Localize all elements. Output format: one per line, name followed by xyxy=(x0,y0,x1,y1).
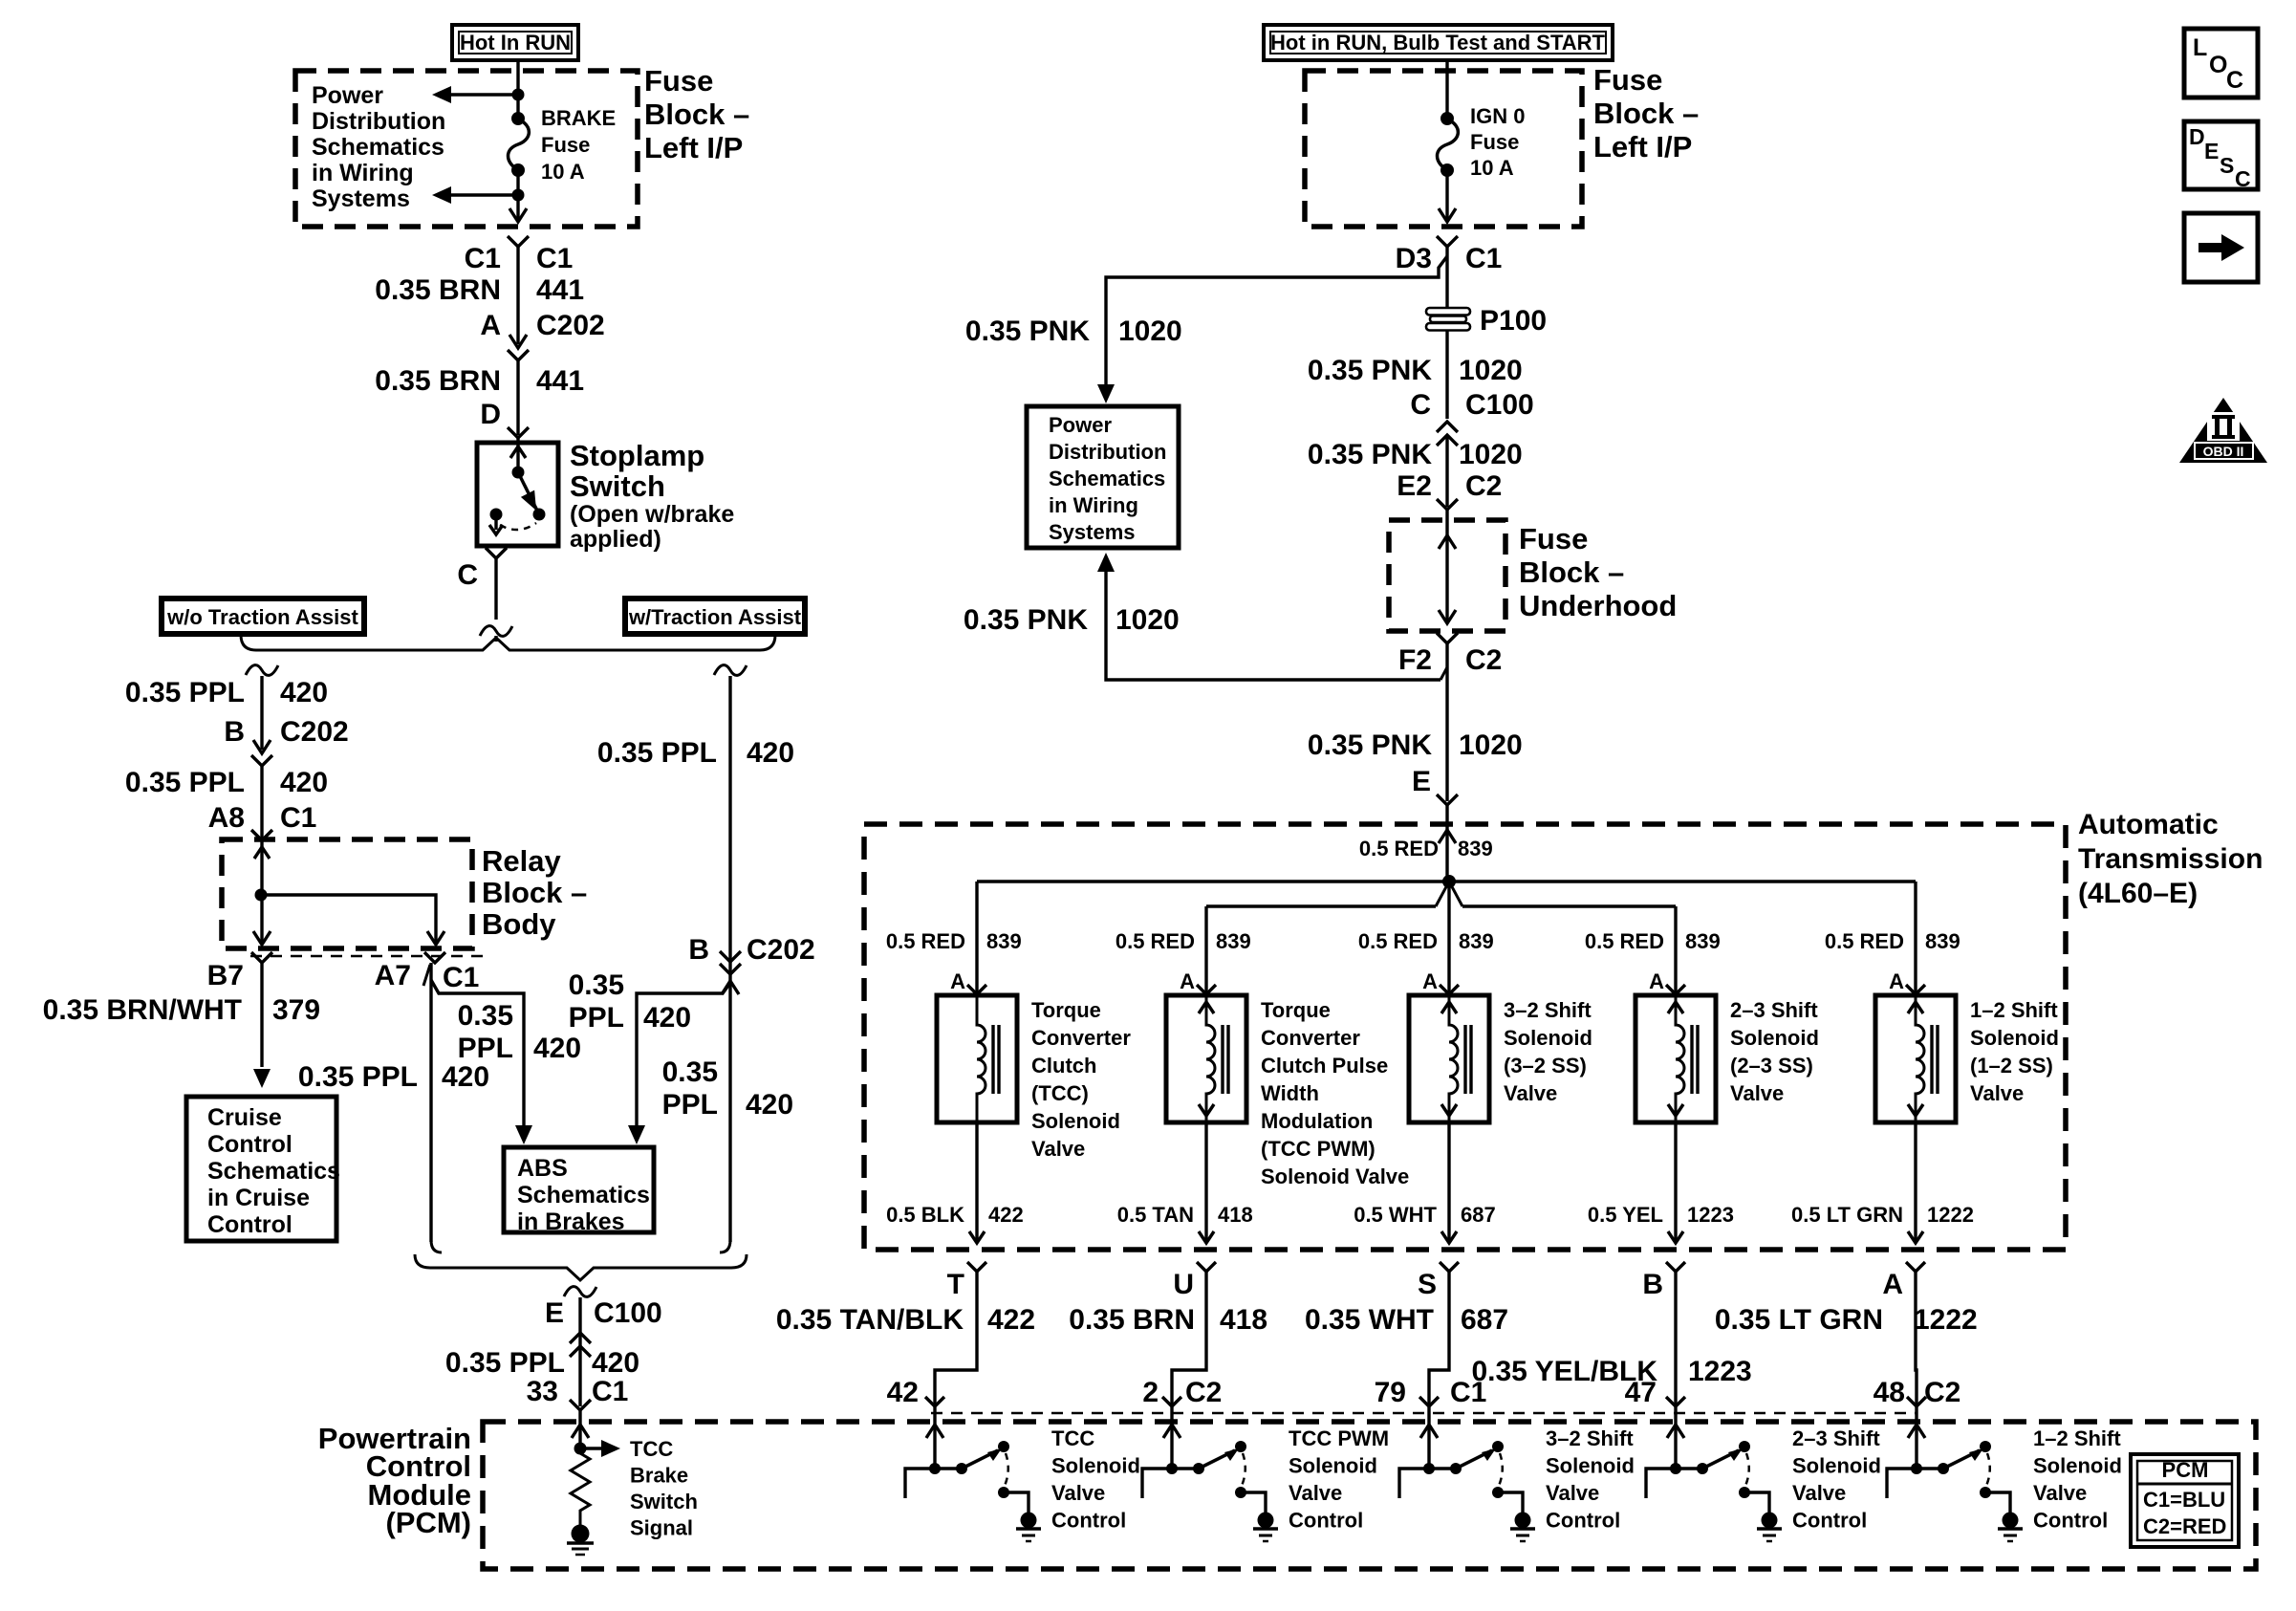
svg-text:Switch: Switch xyxy=(630,1490,698,1513)
svg-text:C1: C1 xyxy=(280,802,316,834)
svg-text:(1–2 SS): (1–2 SS) xyxy=(1970,1054,2053,1078)
svg-text:839: 839 xyxy=(986,929,1022,953)
svg-text:C2: C2 xyxy=(1465,470,1502,502)
svg-text:ABS: ABS xyxy=(517,1155,568,1182)
svg-text:Switch: Switch xyxy=(570,469,665,503)
svg-text:Solenoid: Solenoid xyxy=(1792,1454,1881,1478)
svg-text:420: 420 xyxy=(442,1061,489,1093)
svg-text:OBD II: OBD II xyxy=(2203,444,2244,459)
svg-text:0.35 PNK: 0.35 PNK xyxy=(1308,729,1432,761)
svg-text:0.35 PPL: 0.35 PPL xyxy=(445,1347,565,1379)
svg-text:Hot in RUN, Bulb Test and STAR: Hot in RUN, Bulb Test and START xyxy=(1270,31,1605,54)
svg-text:Valve: Valve xyxy=(1730,1081,1784,1105)
svg-text:U: U xyxy=(1173,1269,1194,1300)
svg-text:A: A xyxy=(950,969,965,993)
svg-text:Solenoid: Solenoid xyxy=(1289,1454,1377,1478)
svg-text:Signal: Signal xyxy=(630,1516,693,1540)
svg-text:Solenoid Valve: Solenoid Valve xyxy=(1261,1165,1409,1188)
svg-text:Control: Control xyxy=(2033,1509,2108,1533)
svg-text:2–3 Shift: 2–3 Shift xyxy=(1792,1426,1880,1450)
svg-text:Solenoid: Solenoid xyxy=(1546,1454,1635,1478)
svg-text:in Wiring: in Wiring xyxy=(1049,493,1138,517)
svg-text:Valve: Valve xyxy=(2033,1481,2087,1505)
svg-text:0.5 WHT: 0.5 WHT xyxy=(1354,1203,1437,1227)
svg-text:Solenoid: Solenoid xyxy=(1031,1109,1120,1133)
svg-text:C202: C202 xyxy=(747,934,815,966)
svg-text:C1: C1 xyxy=(1465,243,1502,274)
svg-text:Width: Width xyxy=(1261,1081,1319,1105)
svg-text:379: 379 xyxy=(272,994,320,1026)
svg-text:Schematics: Schematics xyxy=(207,1158,340,1185)
svg-text:0.5 YEL: 0.5 YEL xyxy=(1588,1203,1663,1227)
svg-text:Hot In RUN: Hot In RUN xyxy=(460,31,571,54)
svg-text:420: 420 xyxy=(533,1033,581,1064)
svg-text:0.5 RED: 0.5 RED xyxy=(886,929,965,953)
svg-text:PCM: PCM xyxy=(2162,1458,2209,1482)
svg-text:Body: Body xyxy=(482,907,556,941)
svg-text:33: 33 xyxy=(527,1376,558,1407)
svg-text:420: 420 xyxy=(643,1002,691,1034)
svg-text:0.35 PNK: 0.35 PNK xyxy=(1308,439,1432,470)
svg-text:10 A: 10 A xyxy=(1470,156,1514,180)
svg-text:42: 42 xyxy=(887,1377,919,1408)
svg-text:Underhood: Underhood xyxy=(1519,589,1677,622)
svg-text:C1: C1 xyxy=(592,1376,628,1407)
svg-text:Automatic: Automatic xyxy=(2078,809,2219,840)
svg-text:0.35: 0.35 xyxy=(662,1056,718,1088)
svg-text:2: 2 xyxy=(1142,1377,1159,1408)
svg-text:Control: Control xyxy=(207,1211,292,1238)
svg-text:Solenoid: Solenoid xyxy=(2033,1454,2122,1478)
svg-text:S: S xyxy=(1418,1269,1437,1300)
svg-text:1–2 Shift: 1–2 Shift xyxy=(2033,1426,2121,1450)
svg-text:O: O xyxy=(2209,52,2227,78)
svg-text:0.35 PNK: 0.35 PNK xyxy=(1308,355,1432,386)
svg-text:Solenoid: Solenoid xyxy=(1970,1026,2059,1050)
svg-text:Fuse: Fuse xyxy=(541,133,590,157)
svg-text:Control: Control xyxy=(1546,1509,1620,1533)
svg-text:(TCC): (TCC) xyxy=(1031,1081,1089,1105)
svg-text:420: 420 xyxy=(280,677,328,708)
svg-text:in Brakes: in Brakes xyxy=(517,1208,625,1235)
svg-text:0.35 PPL: 0.35 PPL xyxy=(298,1061,418,1093)
svg-text:C1: C1 xyxy=(465,243,501,274)
svg-text:10 A: 10 A xyxy=(541,160,585,184)
svg-text:0.5 LT GRN: 0.5 LT GRN xyxy=(1791,1203,1903,1227)
svg-text:0.35 PPL: 0.35 PPL xyxy=(125,677,245,708)
svg-text:C: C xyxy=(2235,166,2251,191)
svg-text:1020: 1020 xyxy=(1116,604,1180,636)
svg-text:Valve: Valve xyxy=(1546,1481,1599,1505)
svg-text:applied): applied) xyxy=(570,526,661,553)
svg-text:E: E xyxy=(1412,766,1431,797)
svg-text:(4L60–E): (4L60–E) xyxy=(2078,878,2198,909)
svg-text:0.5 RED: 0.5 RED xyxy=(1359,837,1439,860)
svg-text:C1: C1 xyxy=(443,962,479,993)
svg-text:TCC: TCC xyxy=(630,1437,673,1461)
svg-text:A: A xyxy=(1422,969,1438,993)
svg-text:0.35 BRN: 0.35 BRN xyxy=(375,274,501,306)
svg-text:A7: A7 xyxy=(375,960,411,991)
svg-text:A: A xyxy=(480,310,501,341)
svg-text:0.5 RED: 0.5 RED xyxy=(1116,929,1195,953)
svg-text:422: 422 xyxy=(987,1304,1035,1336)
svg-text:Power: Power xyxy=(312,82,383,109)
svg-text:B7: B7 xyxy=(207,960,244,991)
svg-text:Left I/P: Left I/P xyxy=(644,131,743,164)
svg-text:BRAKE: BRAKE xyxy=(541,106,616,130)
svg-text:Valve: Valve xyxy=(1792,1481,1846,1505)
svg-text:2–3 Shift: 2–3 Shift xyxy=(1730,998,1818,1022)
svg-text:B: B xyxy=(688,934,709,966)
svg-text:Modulation: Modulation xyxy=(1261,1109,1373,1133)
svg-text:B: B xyxy=(224,716,245,748)
svg-text:0.5 RED: 0.5 RED xyxy=(1585,929,1664,953)
svg-text:687: 687 xyxy=(1461,1203,1496,1227)
svg-text:Transmission: Transmission xyxy=(2078,843,2263,875)
svg-text:C2: C2 xyxy=(1924,1377,1960,1408)
svg-text:687: 687 xyxy=(1461,1304,1508,1336)
svg-text:1020: 1020 xyxy=(1459,439,1523,470)
svg-text:Distribution: Distribution xyxy=(1049,440,1166,464)
svg-text:Schematics: Schematics xyxy=(1049,467,1165,490)
svg-text:A: A xyxy=(1180,969,1195,993)
svg-text:0.35 BRN/WHT: 0.35 BRN/WHT xyxy=(43,994,242,1026)
svg-text:Solenoid: Solenoid xyxy=(1504,1026,1592,1050)
svg-text:E2: E2 xyxy=(1397,470,1432,502)
svg-text:1222: 1222 xyxy=(1914,1304,1978,1336)
svg-text:3–2 Shift: 3–2 Shift xyxy=(1504,998,1592,1022)
svg-text:Stoplamp: Stoplamp xyxy=(570,439,704,472)
svg-text:C1=BLU: C1=BLU xyxy=(2143,1488,2225,1512)
svg-text:Fuse: Fuse xyxy=(1593,63,1662,97)
svg-text:A: A xyxy=(1649,969,1664,993)
svg-text:Control: Control xyxy=(1289,1509,1363,1533)
svg-text:PPL: PPL xyxy=(458,1033,513,1064)
svg-text:1223: 1223 xyxy=(1687,1203,1734,1227)
svg-text:A: A xyxy=(1882,1269,1903,1300)
svg-text:418: 418 xyxy=(1220,1304,1267,1336)
svg-text:Block –: Block – xyxy=(1593,97,1699,130)
svg-text:TCC: TCC xyxy=(1051,1426,1094,1450)
svg-text:Systems: Systems xyxy=(312,185,410,212)
svg-text:C1: C1 xyxy=(536,243,573,274)
svg-text:C2: C2 xyxy=(1465,644,1502,676)
svg-text:441: 441 xyxy=(536,274,584,306)
svg-text:Systems: Systems xyxy=(1049,520,1136,544)
svg-text:C2: C2 xyxy=(1185,1377,1222,1408)
svg-text:Block –: Block – xyxy=(482,876,587,909)
svg-text:C202: C202 xyxy=(536,310,605,341)
svg-text:839: 839 xyxy=(1458,837,1493,860)
svg-text:Solenoid: Solenoid xyxy=(1730,1026,1819,1050)
svg-text:Fuse: Fuse xyxy=(1519,522,1588,555)
svg-text:Converter: Converter xyxy=(1261,1026,1360,1050)
svg-text:1223: 1223 xyxy=(1688,1356,1752,1387)
svg-text:Power: Power xyxy=(1049,413,1112,437)
svg-text:0.5 TAN: 0.5 TAN xyxy=(1117,1203,1194,1227)
svg-text:A8: A8 xyxy=(208,802,245,834)
svg-text:Cruise: Cruise xyxy=(207,1104,282,1131)
svg-text:0.5 BLK: 0.5 BLK xyxy=(886,1203,964,1227)
svg-text:Fuse: Fuse xyxy=(1470,130,1519,154)
svg-text:0.5 RED: 0.5 RED xyxy=(1825,929,1904,953)
svg-text:w/o Traction Assist: w/o Traction Assist xyxy=(166,605,358,629)
svg-text:D3: D3 xyxy=(1396,243,1432,274)
svg-text:L: L xyxy=(2193,34,2207,61)
svg-text:0.35 BRN: 0.35 BRN xyxy=(375,365,501,397)
svg-text:0.35 PNK: 0.35 PNK xyxy=(964,604,1088,636)
svg-text:Distribution: Distribution xyxy=(312,108,445,135)
svg-text:P100: P100 xyxy=(1480,305,1547,337)
svg-text:(2–3 SS): (2–3 SS) xyxy=(1730,1054,1813,1078)
svg-text:1020: 1020 xyxy=(1118,316,1182,347)
svg-text:w/Traction Assist: w/Traction Assist xyxy=(628,605,802,629)
svg-text:D: D xyxy=(480,399,501,430)
svg-text:TCC PWM: TCC PWM xyxy=(1289,1426,1389,1450)
svg-text:C100: C100 xyxy=(594,1297,662,1329)
svg-text:S: S xyxy=(2220,153,2234,178)
svg-text:839: 839 xyxy=(1925,929,1960,953)
svg-text:Control: Control xyxy=(1792,1509,1867,1533)
svg-text:C1: C1 xyxy=(1450,1377,1486,1408)
svg-text:48: 48 xyxy=(1874,1377,1905,1408)
svg-text:C2=RED: C2=RED xyxy=(2143,1514,2226,1538)
svg-text:Control: Control xyxy=(1051,1509,1126,1533)
svg-text:839: 839 xyxy=(1685,929,1721,953)
svg-text:T: T xyxy=(947,1269,964,1300)
svg-text:839: 839 xyxy=(1459,929,1494,953)
svg-text:in Cruise: in Cruise xyxy=(207,1185,310,1211)
svg-text:(Open w/brake: (Open w/brake xyxy=(570,501,734,528)
svg-text:1020: 1020 xyxy=(1459,355,1523,386)
svg-text:Control: Control xyxy=(207,1131,292,1158)
svg-text:0.5 RED: 0.5 RED xyxy=(1358,929,1438,953)
svg-text:0.35 TAN/BLK: 0.35 TAN/BLK xyxy=(776,1304,964,1336)
svg-text:420: 420 xyxy=(746,1089,793,1121)
svg-text:420: 420 xyxy=(280,767,328,798)
svg-text:3–2 Shift: 3–2 Shift xyxy=(1546,1426,1634,1450)
svg-text:PPL: PPL xyxy=(662,1089,718,1121)
svg-text:1020: 1020 xyxy=(1459,729,1523,761)
svg-text:C: C xyxy=(1410,389,1431,421)
svg-text:1–2 Shift: 1–2 Shift xyxy=(1970,998,2058,1022)
svg-text:Valve: Valve xyxy=(1970,1081,2024,1105)
svg-text:E: E xyxy=(2204,139,2219,163)
svg-text:Block –: Block – xyxy=(1519,555,1624,589)
svg-text:in Wiring: in Wiring xyxy=(312,160,414,186)
svg-text:Converter: Converter xyxy=(1031,1026,1131,1050)
svg-text:PPL: PPL xyxy=(569,1002,624,1034)
svg-text:418: 418 xyxy=(1218,1203,1253,1227)
svg-text:(3–2 SS): (3–2 SS) xyxy=(1504,1054,1587,1078)
svg-text:Torque: Torque xyxy=(1031,998,1101,1022)
svg-text:Left I/P: Left I/P xyxy=(1593,130,1692,163)
svg-text:Fuse: Fuse xyxy=(644,64,713,98)
svg-text:IGN 0: IGN 0 xyxy=(1470,104,1525,128)
svg-text:79: 79 xyxy=(1375,1377,1406,1408)
svg-text:0.35 PPL: 0.35 PPL xyxy=(125,767,245,798)
svg-text:D: D xyxy=(2189,124,2205,149)
svg-text:C: C xyxy=(457,559,478,591)
svg-text:0.35: 0.35 xyxy=(569,969,624,1001)
svg-text:Valve: Valve xyxy=(1051,1481,1105,1505)
svg-text:420: 420 xyxy=(592,1347,639,1379)
svg-text:0.35 PNK: 0.35 PNK xyxy=(965,316,1090,347)
svg-text:Clutch: Clutch xyxy=(1031,1054,1096,1078)
svg-text:422: 422 xyxy=(988,1203,1024,1227)
svg-text:B: B xyxy=(1642,1269,1663,1300)
svg-text:47: 47 xyxy=(1625,1377,1657,1408)
svg-text:C100: C100 xyxy=(1465,389,1534,421)
svg-text:441: 441 xyxy=(536,365,584,397)
svg-text:F2: F2 xyxy=(1398,644,1432,676)
svg-text:0.35 BRN: 0.35 BRN xyxy=(1069,1304,1195,1336)
svg-text:Relay: Relay xyxy=(482,844,561,878)
svg-text:0.35 WHT: 0.35 WHT xyxy=(1305,1304,1434,1336)
svg-text:Brake: Brake xyxy=(630,1464,688,1488)
svg-text:Valve: Valve xyxy=(1031,1137,1085,1161)
svg-text:0.35 LT GRN: 0.35 LT GRN xyxy=(1715,1304,1883,1336)
svg-text:Solenoid: Solenoid xyxy=(1051,1454,1140,1478)
svg-text:Schematics: Schematics xyxy=(517,1182,650,1208)
svg-text:0.35 PPL: 0.35 PPL xyxy=(597,737,717,769)
svg-text:C202: C202 xyxy=(280,716,349,748)
svg-text:1222: 1222 xyxy=(1927,1203,1974,1227)
svg-text:(PCM): (PCM) xyxy=(385,1506,471,1539)
svg-text:(TCC PWM): (TCC PWM) xyxy=(1261,1137,1375,1161)
svg-text:E: E xyxy=(545,1297,564,1329)
svg-text:A: A xyxy=(1889,969,1904,993)
svg-text:839: 839 xyxy=(1216,929,1251,953)
svg-text:0.35: 0.35 xyxy=(458,1000,513,1032)
svg-text:420: 420 xyxy=(747,737,794,769)
svg-text:Schematics: Schematics xyxy=(312,134,444,161)
svg-text:Block –: Block – xyxy=(644,98,749,131)
svg-text:Valve: Valve xyxy=(1504,1081,1557,1105)
svg-text:Valve: Valve xyxy=(1289,1481,1342,1505)
svg-text:Torque: Torque xyxy=(1261,998,1331,1022)
svg-text:C: C xyxy=(2226,67,2243,94)
svg-text:Clutch Pulse: Clutch Pulse xyxy=(1261,1054,1388,1078)
